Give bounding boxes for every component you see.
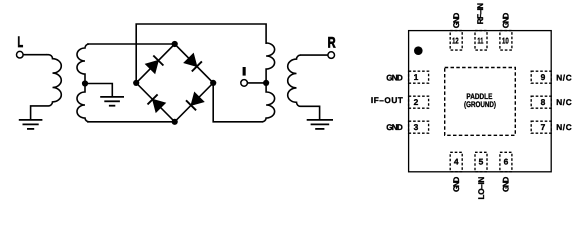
pad pin 5 <box>475 152 487 172</box>
transformer T2 primary winding <box>288 55 320 119</box>
svg-text:N/C: N/C <box>556 74 572 83</box>
pad pin 9 <box>531 71 551 83</box>
svg-text:GND: GND <box>502 177 511 192</box>
paddle (ground) dashed outline <box>445 68 516 136</box>
svg-text:R: R <box>328 35 336 52</box>
transformer T1 secondary winding <box>77 44 89 122</box>
transformer T1 primary winding <box>31 55 62 120</box>
diode ring edges <box>136 44 213 122</box>
svg-text:GND: GND <box>386 74 403 83</box>
side pin labels <box>371 3 572 200</box>
svg-text:7: 7 <box>541 122 546 132</box>
svg-text:LO–IN: LO–IN <box>477 177 486 200</box>
wire diamond right node down and over to T2 secondary bottom <box>213 83 263 122</box>
diode D4 <box>148 94 166 112</box>
node T2 secondary center tap <box>263 80 269 86</box>
svg-text:GND: GND <box>386 123 403 132</box>
pad pin 6 <box>500 152 512 172</box>
pad pin 3 <box>409 121 429 133</box>
svg-text:10: 10 <box>502 36 509 46</box>
wire R terminal to T2 primary <box>301 54 329 56</box>
transformer T2 secondary winding <box>262 43 275 122</box>
terminal I label <box>243 67 246 76</box>
node T1 secondary center tap <box>82 80 88 86</box>
svg-text:RF–IN: RF–IN <box>476 3 485 24</box>
diode D2 <box>184 54 202 72</box>
diode D1 <box>146 56 164 74</box>
svg-text:(GROUND): (GROUND) <box>464 100 496 109</box>
pad pin 2 <box>409 96 429 108</box>
svg-text:6: 6 <box>504 157 509 167</box>
svg-text:N/C: N/C <box>556 98 572 107</box>
pin numbers <box>414 36 546 167</box>
svg-text:2: 2 <box>414 97 419 107</box>
svg-text:L: L <box>18 34 24 51</box>
pad pin 4 <box>450 152 462 172</box>
svg-text:9: 9 <box>541 72 546 82</box>
svg-text:3: 3 <box>414 122 419 132</box>
paddle label <box>464 92 496 109</box>
node diamond top <box>172 41 178 47</box>
pad pin 11 <box>475 31 487 50</box>
pad pin 1 <box>409 71 429 83</box>
svg-text:IF–OUT: IF–OUT <box>371 96 403 105</box>
svg-text:GND: GND <box>501 13 510 29</box>
node diamond bottom <box>172 119 178 125</box>
pin 1 indicator dot <box>414 46 423 55</box>
svg-text:11: 11 <box>477 36 483 46</box>
svg-text:4: 4 <box>454 157 459 167</box>
wire diamond left node up and over to T2 secondary top <box>136 24 266 83</box>
terminal L circle <box>17 51 24 58</box>
node diamond right <box>210 80 216 86</box>
pad pin 7 <box>531 121 551 133</box>
pad pin 10 <box>500 31 512 50</box>
svg-text:8: 8 <box>541 97 546 107</box>
svg-text:12: 12 <box>452 36 459 46</box>
terminal R circle <box>328 52 335 59</box>
ground for T1 primary <box>19 120 43 129</box>
ground for T1 center tap <box>100 97 124 106</box>
diode D3 <box>186 93 204 111</box>
wire L terminal to T1 primary <box>23 54 47 56</box>
package outline U1 <box>409 31 552 172</box>
ground for T2 primary <box>307 120 333 129</box>
wire center tap to ground <box>85 84 112 97</box>
wire T1 secondary top to diamond top node <box>87 43 175 45</box>
pad pin 8 <box>531 96 551 108</box>
terminal I circle <box>241 80 248 87</box>
wire I terminal to T2 center tap <box>247 82 266 84</box>
pad pin 12 <box>450 31 462 50</box>
svg-text:1: 1 <box>414 72 419 82</box>
node diamond left <box>133 80 139 86</box>
wire T1 secondary bottom to diamond bottom node <box>87 121 175 123</box>
svg-text:N/C: N/C <box>556 123 572 132</box>
svg-text:5: 5 <box>479 157 484 167</box>
svg-text:GND: GND <box>452 177 461 192</box>
svg-text:GND: GND <box>452 13 461 29</box>
